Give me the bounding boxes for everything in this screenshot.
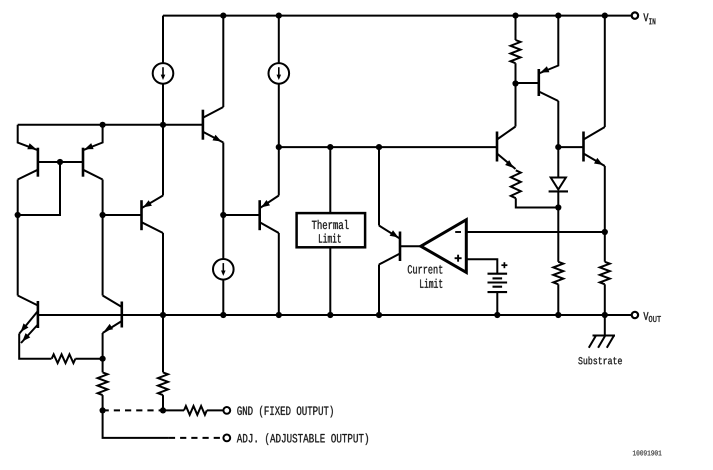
wire Q5 emitter riser [162, 125, 164, 196]
wire R2 bottom [102, 395, 104, 410]
wire Q6 emitter riser [278, 147, 280, 195]
wire Q9 collector drop [557, 101, 559, 147]
ground substrate [589, 315, 615, 348]
wire R4 to GND terminal [207, 409, 224, 411]
node GND row left junction [100, 407, 106, 413]
node diode junction [555, 204, 561, 210]
battery B1 [488, 262, 508, 292]
wire CS1 drop [162, 16, 164, 125]
node A junction CS1 [160, 122, 166, 128]
wire R8 bottom [557, 284, 559, 315]
wire R3 top [162, 315, 164, 372]
resistor R1 [52, 354, 76, 363]
transistor Q9 [539, 16, 559, 101]
terminal V_IN [632, 12, 638, 18]
node Q6 base junction [220, 212, 226, 218]
node base tie junction [57, 159, 63, 165]
node Q11 base junction [555, 144, 561, 150]
transistor Q5 [142, 196, 164, 234]
wire Q12 collector drop [378, 265, 380, 316]
wire dashed GND link [103, 409, 163, 411]
label V_IN [643, 13, 655, 24]
resistor R5 [511, 40, 521, 63]
node mid line junctions [276, 144, 382, 150]
wire R4 lead [163, 409, 184, 411]
wire R1 to node C [75, 358, 102, 360]
wire R2 top [102, 359, 104, 373]
wire B1 to OUT rail [496, 292, 498, 315]
node Q1 collector junction [15, 212, 21, 218]
wire Q5 base node to Q8 collector [102, 215, 104, 296]
label Thermal Limit [312, 220, 349, 243]
node R5 junction [512, 80, 518, 86]
current source I1 [153, 63, 174, 84]
resistor R6 [511, 170, 521, 198]
transistor Q11 [584, 127, 605, 166]
node A junction left [100, 122, 106, 128]
wire Q8 emitter drop [102, 333, 104, 359]
wire Q2 collector to Q5 base node [102, 180, 104, 216]
transistor Q3 [203, 107, 223, 143]
wire Q12 emitter riser [378, 147, 380, 225]
current source I3 [213, 259, 234, 280]
wire Q6 base [223, 214, 259, 216]
wire diode node drop [557, 208, 559, 262]
wire Q12 base [400, 245, 421, 247]
wire Q11 collector riser [604, 16, 606, 127]
wire Q6 base to CS3 [222, 215, 224, 259]
label GND (FIXED OUTPUT) [237, 406, 332, 418]
resistor R4 [184, 406, 207, 415]
resistor R8 [553, 262, 563, 285]
wire Q10 collector riser [515, 84, 517, 127]
wire Q9 base [516, 82, 539, 84]
op-amp U1 [421, 220, 467, 273]
wire Q11 base [558, 146, 583, 148]
terminal ADJ [223, 435, 230, 442]
wire R5 top [515, 16, 517, 40]
wire bottom V_OUT rail (node OUT) [38, 314, 632, 316]
terminal GND [223, 407, 230, 414]
node minus junction [602, 229, 608, 235]
node C junction [100, 356, 106, 362]
wire U1 minus input [466, 231, 605, 233]
resistor R2 [98, 372, 108, 395]
wire Q7 emitters drop [19, 334, 51, 359]
transistor Q8 [103, 296, 122, 334]
wire Q5 collector drop [162, 233, 164, 315]
wire Q6 collector drop [278, 233, 280, 315]
node top rail junctions [220, 13, 608, 19]
wire ADJ drop [103, 410, 169, 438]
wire R3 bottom [162, 395, 164, 410]
transistor Q12 (current limit) [379, 226, 400, 265]
label figure number 10091901 [633, 450, 662, 455]
node GND row right junction [160, 407, 166, 413]
label Substrate [578, 357, 622, 365]
transistor Q2 [83, 125, 103, 180]
wire top V_IN rail [163, 15, 632, 17]
wire Q11 emitter drop [604, 166, 606, 262]
wire Q3 collector riser [222, 16, 224, 107]
terminal V_OUT [632, 312, 638, 318]
wire Q1-Q2 base tie [38, 161, 83, 163]
transistor Q6 [260, 196, 279, 234]
wire CS2 drop [278, 16, 280, 148]
wire thermal bottom [329, 247, 331, 315]
node Q5 base junction [100, 212, 106, 218]
current source I2 [269, 63, 290, 84]
wire CS3 to OUT rail [222, 280, 224, 315]
wire Q3 emitter to Q6 base [222, 143, 224, 216]
label Current Limit [408, 265, 443, 288]
wire R7 bottom [604, 284, 606, 315]
resistor R3 [158, 372, 168, 395]
wire U1 plus input [466, 259, 497, 274]
resistor R7 [600, 262, 610, 285]
block Thermal Limit [297, 213, 366, 247]
wire Q5 base [103, 214, 142, 216]
wire Q1 collector-base tie [18, 162, 60, 215]
wire Q1 collector drop [17, 180, 19, 216]
wire R6 to diode node [516, 198, 559, 207]
wire left bias rail (node A) [18, 124, 203, 126]
transistor Q7 (dual emitter) [18, 296, 38, 344]
wire dashed ADJ link [169, 437, 224, 439]
label ADJ. (ADJUSTABLE OUTPUT) [237, 433, 368, 445]
wire Q7 collector riser [17, 215, 19, 296]
transistor Q10 [497, 127, 516, 170]
diode D1 [549, 147, 568, 207]
node bottom rail junctions [160, 312, 608, 318]
wire thermal top [329, 147, 331, 213]
wire R5 bottom [515, 63, 517, 83]
wire mid node line (node B) [279, 146, 497, 148]
transistor Q1 [18, 125, 38, 180]
label V_OUT [643, 312, 661, 322]
